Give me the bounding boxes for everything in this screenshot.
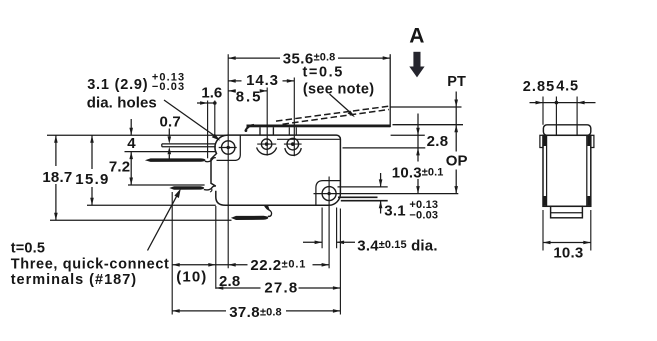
3.4 dia extension lines bbox=[322, 208, 337, 249]
2.8 / 10.3 dimension line bbox=[417, 114, 419, 194]
svg-text:8.5: 8.5 bbox=[236, 89, 263, 106]
terminal T1 blade (black lens) bbox=[145, 158, 206, 162]
dimension 8.5 line bbox=[228, 90, 267, 92]
svg-text:PT: PT bbox=[447, 74, 466, 90]
switch body outline (main view) bbox=[216, 135, 341, 205]
dimension 0.7 lines bbox=[168, 129, 170, 159]
svg-text:t=0.5: t=0.5 bbox=[11, 241, 45, 257]
svg-text:(10): (10) bbox=[176, 268, 207, 285]
mounting hole 2 vertical centerline bbox=[328, 177, 330, 269]
dimension 4 line bbox=[130, 119, 132, 135]
svg-text:2.8: 2.8 bbox=[219, 273, 240, 290]
leader line for see note bbox=[330, 94, 353, 115]
terminal T2 exit lower lip bbox=[210, 189, 212, 192]
common terminal blade (black lens) bbox=[231, 216, 268, 220]
hinge lever (solid, operating position) bbox=[247, 125, 391, 128]
common terminal curl bbox=[265, 205, 272, 216]
PT / OP dimension line bbox=[455, 92, 457, 194]
terminal T3 middle line bbox=[338, 196, 378, 198]
svg-text:t=0.5: t=0.5 bbox=[303, 65, 344, 81]
right ref line L2 operating position bbox=[393, 124, 464, 126]
leader line for 3.1 dia holes bbox=[164, 100, 215, 136]
terminal T3 bottom line bbox=[341, 200, 388, 202]
dimension 27.8 line bbox=[216, 287, 341, 289]
svg-text:2.85: 2.85 bbox=[523, 79, 556, 95]
bottom ext line terminal T2 tip bbox=[171, 192, 173, 315]
svg-text:4: 4 bbox=[127, 135, 136, 152]
dimension 7.2 line bbox=[130, 152, 132, 185]
left ref line: body top extended bbox=[47, 134, 228, 136]
dimension 18.7 line bbox=[55, 135, 57, 220]
terminal T1 shelf line (also ref line for dims 4 / 7.2) bbox=[125, 151, 216, 153]
svg-text:27.8: 27.8 bbox=[264, 280, 298, 297]
side view bottom block bbox=[551, 206, 583, 218]
terminal T2 top line (also ref line for dim 7.2) bbox=[128, 184, 205, 186]
svg-text:14.3: 14.3 bbox=[246, 72, 279, 89]
side view 10.3 ext lines bbox=[543, 210, 591, 251]
svg-text:2.8: 2.8 bbox=[427, 133, 449, 150]
3.4 dia dimension line bbox=[303, 241, 355, 243]
ext line through hinge pin bbox=[266, 88, 268, 156]
svg-text:10.3±0.1: 10.3±0.1 bbox=[392, 164, 444, 181]
terminal T2 blade (black lens) bbox=[169, 186, 204, 190]
terminal T3 top line bbox=[338, 186, 388, 188]
svg-text:4.5: 4.5 bbox=[556, 79, 579, 95]
dimension 35.6 line bbox=[228, 57, 390, 59]
plunger cup arc bbox=[285, 148, 301, 155]
hinge lever free position (dashed) top bbox=[276, 106, 389, 121]
hinge lever left curl bbox=[246, 125, 255, 131]
ext line lever tip bbox=[389, 54, 391, 127]
side view cap split lines bbox=[556, 126, 577, 136]
hinge cup arc bbox=[257, 147, 277, 154]
svg-text:−0.03: −0.03 bbox=[409, 209, 438, 221]
mounting hole 2 bbox=[322, 187, 336, 201]
ext line notch bbox=[207, 101, 209, 159]
svg-text:22.2±0.1: 22.2±0.1 bbox=[250, 257, 306, 274]
side view left ear bbox=[540, 135, 543, 147]
right ref line L4 hole 1 center level bbox=[343, 147, 426, 149]
side view right ear bbox=[591, 135, 594, 147]
hinge pin circle bbox=[261, 139, 271, 149]
svg-text:7.2: 7.2 bbox=[109, 159, 130, 176]
bottom ext line body right edge bbox=[339, 209, 341, 315]
svg-text:0.7: 0.7 bbox=[160, 114, 181, 131]
mounting hole 2 center dot bbox=[327, 192, 330, 195]
leader line for three terminals note bbox=[148, 192, 179, 250]
body top step line bbox=[277, 138, 340, 140]
svg-text:15.9: 15.9 bbox=[75, 171, 109, 188]
svg-text:Three, quick-connect: Three, quick-connect bbox=[11, 257, 170, 273]
svg-text:dia. holes: dia. holes bbox=[87, 95, 157, 112]
svg-text:1.6: 1.6 bbox=[201, 85, 222, 102]
svg-text:terminals (#187): terminals (#187) bbox=[11, 272, 137, 288]
svg-text:10.3: 10.3 bbox=[553, 244, 583, 261]
A direction arrow head bbox=[409, 67, 424, 78]
hinge pin crosshair bbox=[257, 143, 276, 145]
svg-text:3.1 (2.9): 3.1 (2.9) bbox=[87, 77, 148, 93]
side view bottom block line bbox=[551, 212, 583, 214]
svg-text:3.1: 3.1 bbox=[384, 202, 405, 219]
hole 2 horizontal centerline extended right bbox=[314, 193, 459, 195]
svg-text:OP: OP bbox=[446, 152, 468, 169]
switch body left edge with notch bbox=[211, 135, 228, 186]
side view seam lines bbox=[547, 135, 587, 206]
left ref line: body bottom extended bbox=[87, 204, 216, 206]
plunger shaft bbox=[289, 127, 296, 135]
side view 10.3 dimension line bbox=[543, 242, 591, 244]
terminal tab A upper line bbox=[162, 144, 216, 147]
top ext line through hole 1 center bbox=[227, 54, 229, 268]
side view 2.85/4.5 ext lines bbox=[543, 97, 577, 125]
svg-text:−0.03: −0.03 bbox=[152, 81, 185, 93]
right ref line L3 body top level bbox=[391, 134, 425, 136]
mounting hole 1 center dot bbox=[227, 146, 230, 149]
side view seam thick segments bbox=[545, 136, 589, 206]
plunger pin crosshair bbox=[284, 143, 302, 145]
svg-text:A: A bbox=[409, 25, 424, 48]
right ref line L1 free position bbox=[390, 106, 461, 108]
terminal T1 curl to case bbox=[205, 158, 216, 162]
left ref line: terminal blade bottom extended bbox=[50, 219, 232, 221]
3.1 right dimension lines bbox=[380, 173, 382, 214]
mounting hole 1 internal boss contour bbox=[217, 135, 241, 160]
mounting hole 1 bbox=[222, 141, 235, 154]
side view body bbox=[543, 135, 591, 206]
ext line body left edge top bbox=[214, 101, 216, 136]
mounting hole 2 internal boss contour bbox=[316, 181, 341, 206]
hinge bracket sides bbox=[260, 127, 273, 135]
side view lever cap bbox=[543, 125, 590, 136]
terminal T2 curl to case bbox=[204, 186, 216, 190]
A direction arrow shaft bbox=[413, 52, 420, 67]
svg-text:(see note): (see note) bbox=[303, 81, 375, 97]
dimension 15.9 line bbox=[91, 135, 93, 205]
dimension 1.6 dot bbox=[213, 101, 217, 105]
hinge pin center dot bbox=[265, 142, 269, 146]
svg-text:37.8±0.8: 37.8±0.8 bbox=[229, 304, 282, 321]
dimension 14.3 line bbox=[228, 80, 294, 82]
common terminal junction fill bbox=[265, 205, 270, 210]
plunger pin center dot bbox=[291, 142, 295, 146]
bottom dimension line (10)/2.8/22.2 bbox=[172, 264, 329, 266]
side view 2.85/4.5 shared dot bbox=[555, 101, 559, 105]
hinge lever curl end dot bbox=[245, 129, 248, 132]
dimension 1.6 leader line bbox=[197, 102, 215, 104]
plunger pin circle bbox=[287, 138, 299, 150]
svg-text:18.7: 18.7 bbox=[42, 169, 72, 186]
svg-text:3.4±0.15 dia.: 3.4±0.15 dia. bbox=[357, 238, 437, 255]
dimension 37.8 line bbox=[172, 310, 340, 312]
hinge lever free position (dashed) bottom bbox=[283, 110, 390, 125]
bottom ext line body left edge bbox=[215, 206, 217, 289]
side view 2.85/4.5 dimension line bbox=[530, 102, 596, 104]
mounting hole 1 crosshair bbox=[219, 147, 237, 149]
ext line through plunger pin bbox=[293, 78, 295, 157]
